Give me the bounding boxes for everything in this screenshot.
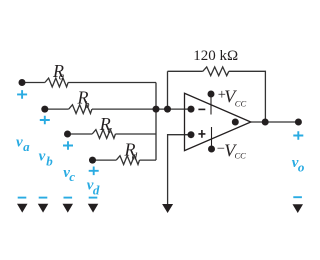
svg-text:d: d [93, 183, 100, 198]
wire feedback top right and drop to output [229, 71, 266, 122]
svg-text:120 kΩ: 120 kΩ [193, 48, 238, 64]
plus sign output vo [293, 131, 303, 140]
ground arrow head [162, 204, 173, 213]
op-amp inverting input dot [188, 106, 195, 113]
svg-text:CC: CC [235, 98, 247, 108]
+Vcc pin line [210, 96, 212, 115]
wire Ra to summing bus [68, 82, 156, 84]
wire Rd to summing bus [140, 159, 157, 161]
wire Rb to op-amp inverting input [92, 108, 191, 110]
resistor Rf 120k [203, 67, 229, 76]
ground triangle source b [38, 204, 49, 213]
node a dot [19, 79, 26, 86]
-Vcc pin dot [208, 146, 215, 153]
svg-text:a: a [23, 139, 30, 154]
resistor Rb [69, 105, 92, 114]
junction dot summing bus / inverting line [153, 106, 160, 113]
svg-text:CC: CC [235, 151, 247, 161]
minus sign source a [18, 197, 27, 199]
plus sign source b [40, 116, 50, 125]
op-amp U1 triangle [185, 93, 251, 150]
svg-text:d: d [132, 150, 138, 162]
resistor Ra [45, 78, 68, 87]
svg-text:a: a [59, 71, 65, 83]
plus sign source d [89, 167, 99, 176]
plus sign source a [17, 90, 27, 99]
ground triangle source d [88, 204, 99, 213]
wire summing bus vertical [155, 83, 157, 161]
wire op-amp output [251, 121, 299, 123]
op-amp noninverting input dot [188, 131, 195, 138]
svg-text:c: c [108, 125, 113, 136]
minus sign source d [89, 197, 98, 199]
-Vcc pin line [211, 127, 213, 147]
wire noninverting input to ground riser [168, 135, 191, 205]
wire node c to resistor Rc [68, 133, 93, 135]
svg-text:v: v [16, 134, 23, 150]
wire Rc to summing bus [115, 133, 156, 135]
+Vcc pin dot [208, 91, 215, 98]
node b dot [41, 106, 48, 113]
wire node b to resistor Rb [45, 108, 69, 110]
svg-text:o: o [298, 160, 305, 175]
wire node d to resistor Rd [93, 159, 117, 161]
wire feedback riser [167, 71, 169, 109]
wire node a to resistor Ra [22, 82, 45, 84]
junction dot feedback / inverting line [164, 106, 171, 113]
terminal vo dot [295, 119, 302, 126]
node d dot [89, 157, 96, 164]
op-amp output pin dot [232, 119, 239, 126]
op-amp noninverting plus sign [198, 130, 205, 138]
ground triangle output vo [293, 204, 304, 213]
svg-text:v: v [39, 149, 46, 165]
svg-text:b: b [85, 100, 90, 111]
ground triangle source c [63, 204, 74, 213]
resistor Rd [116, 156, 139, 165]
plus sign source c [63, 141, 73, 150]
wire feedback top left [168, 70, 203, 72]
ground triangle source a [17, 204, 28, 213]
minus sign source c [64, 197, 73, 199]
svg-text:c: c [69, 169, 75, 184]
resistor Rc [92, 130, 115, 139]
minus sign source b [39, 197, 48, 199]
junction dot feedback / output [262, 119, 269, 126]
node c dot [64, 131, 71, 138]
op-amp inverting minus sign [198, 108, 205, 110]
minus sign output vo [293, 196, 302, 198]
svg-text:b: b [46, 154, 53, 169]
